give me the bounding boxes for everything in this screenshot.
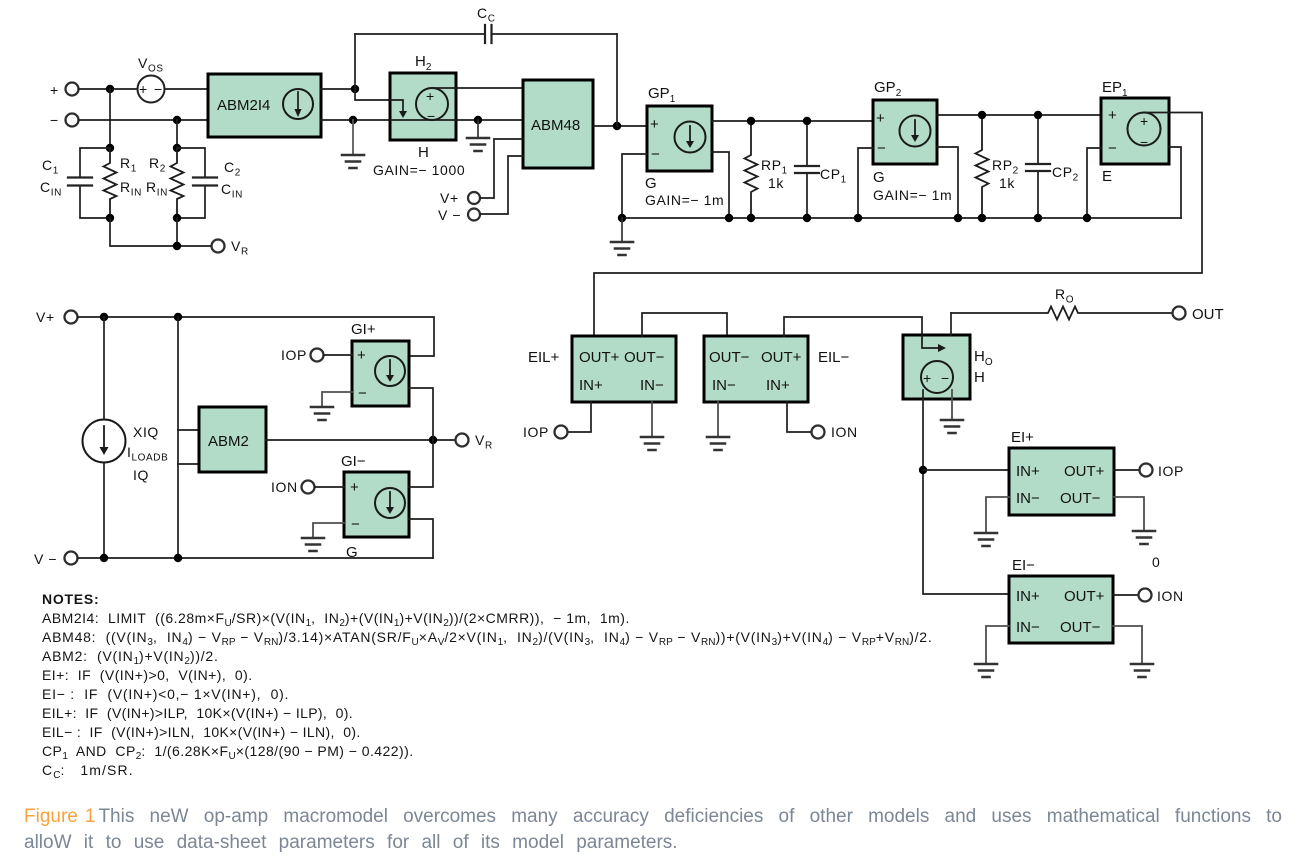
node R2 bottom xyxy=(173,214,181,222)
terminal OUT xyxy=(1173,306,1224,323)
ground EI- IN- xyxy=(975,664,997,677)
svg-text:ABM2: ABM2 xyxy=(208,433,249,450)
node CP2 top xyxy=(1034,111,1042,119)
wire EI- OUT- to ground xyxy=(1113,626,1142,664)
block ABM2I4 xyxy=(208,74,321,137)
svg-text:IQ: IQ xyxy=(133,467,149,483)
svg-text:G: G xyxy=(873,169,885,186)
terminal ION (GI-) xyxy=(271,479,315,495)
svg-text:V+: V+ xyxy=(36,309,55,325)
svg-text:V+: V+ xyxy=(440,190,459,206)
svg-text:OUT: OUT xyxy=(1192,306,1224,323)
svg-text:HO: HO xyxy=(974,348,993,368)
svg-text:−: − xyxy=(651,146,660,163)
terminal + input xyxy=(50,82,79,98)
svg-text:−: − xyxy=(1140,134,1149,150)
svg-text:OUT−: OUT− xyxy=(1060,490,1101,507)
node RP2 top xyxy=(978,111,986,119)
svg-text:C1: C1 xyxy=(42,157,59,177)
node CP1 bottom xyxy=(803,214,811,222)
wire EP1 - input to rail xyxy=(1087,148,1101,218)
svg-text:+: + xyxy=(876,110,885,127)
node CP1 top xyxy=(803,117,811,125)
svg-text:OUT−: OUT− xyxy=(624,349,665,366)
svg-text:ION: ION xyxy=(831,424,858,440)
node bottom output xyxy=(349,116,357,124)
svg-text:ABM48: ABM48 xyxy=(531,117,580,134)
svg-text:1k: 1k xyxy=(999,175,1015,191)
capacitor CP1 xyxy=(795,121,847,218)
block GP1 VCCS xyxy=(645,85,724,208)
wire EIL- OUT+ to HO sense xyxy=(784,317,922,336)
terminal IOP (EI+) xyxy=(1140,463,1184,479)
svg-text:−: − xyxy=(154,81,163,97)
svg-text:ABM2I4: ABM2I4 xyxy=(217,97,270,114)
ground below node xyxy=(342,120,364,168)
wire EI- OUT+ to ION xyxy=(1113,594,1139,596)
svg-text:GP2: GP2 xyxy=(874,79,902,99)
HO sense hook arrow xyxy=(922,335,946,352)
wire ABM2 IN1 stub xyxy=(178,429,199,431)
svg-text:+: + xyxy=(50,82,59,98)
terminal VR top xyxy=(212,238,249,258)
block GI+ VCCS xyxy=(351,321,409,406)
wire V+ rail xyxy=(78,317,435,356)
svg-text:H: H xyxy=(418,144,429,161)
wire HO + output down to EI inputs xyxy=(923,390,1009,594)
svg-text:+: + xyxy=(650,116,659,133)
wire + node down to R1 xyxy=(109,89,111,148)
wire EP1 lower output to rail end xyxy=(1169,147,1181,218)
svg-text:+: + xyxy=(426,88,435,104)
svg-text:−: − xyxy=(1108,140,1117,157)
node CC junction xyxy=(613,122,621,130)
svg-text:+: + xyxy=(357,347,366,364)
ground rail xyxy=(622,217,1181,219)
svg-text:IN+: IN+ xyxy=(766,377,790,394)
svg-text:EI+: EI+ xyxy=(1011,429,1034,446)
ground EI+ OUT- xyxy=(1133,531,1155,544)
wire to EI+ IN+ xyxy=(923,469,1009,471)
ground GI+ xyxy=(311,407,333,420)
block EI- xyxy=(1009,557,1113,643)
svg-text:IOP: IOP xyxy=(1158,463,1184,479)
node EP1 - rail xyxy=(1083,214,1091,222)
wire VR node down to GI- xyxy=(409,440,433,487)
block EIL- xyxy=(704,336,850,402)
node R2 top xyxy=(173,144,181,152)
capacitor C1 CIN xyxy=(40,148,110,218)
node XIQ top xyxy=(100,313,108,321)
svg-text:OUT+: OUT+ xyxy=(1064,588,1105,605)
svg-text:EP1: EP1 xyxy=(1102,79,1128,99)
node ABM2 branch top xyxy=(174,313,182,321)
capacitor C2 CIN xyxy=(177,148,243,218)
wire through H2 bottom xyxy=(390,119,523,121)
ground below H2 output xyxy=(467,120,489,151)
wire GP2 output bus xyxy=(937,114,1101,116)
svg-text:OUT+: OUT+ xyxy=(579,349,620,366)
svg-text:EIL−: EIL− xyxy=(818,349,850,366)
svg-text:VR: VR xyxy=(475,432,493,452)
wire ION to GI- xyxy=(315,486,345,488)
svg-text:VR: VR xyxy=(231,238,249,258)
ground below rail xyxy=(611,218,633,255)
node top output xyxy=(351,85,359,93)
wire EIL+ OUT- bridge to EIL- OUT- xyxy=(642,313,727,336)
wire V+ to ABM48 xyxy=(481,139,524,198)
current source XIQ xyxy=(83,317,169,558)
wire ABM2 input branch xyxy=(177,317,179,558)
svg-text:IN+: IN+ xyxy=(1016,588,1040,605)
wire GP1 - input to ground rail xyxy=(622,154,647,218)
wire +input to Vos xyxy=(79,88,138,90)
wire EI+ IN- to ground xyxy=(986,497,1009,533)
wire GP1 output bus xyxy=(712,120,873,122)
wire H2 + output to ABM48 xyxy=(432,87,523,89)
svg-text:CP2: CP2 xyxy=(1052,164,1079,184)
svg-text:−: − xyxy=(941,370,950,386)
svg-text:IN+: IN+ xyxy=(1016,463,1040,480)
svg-text:+: + xyxy=(1108,107,1117,124)
svg-text:+: + xyxy=(350,479,359,496)
svg-text:GAIN=− 1000: GAIN=− 1000 xyxy=(373,162,465,178)
capacitor CC xyxy=(355,5,617,43)
resistor R2 RIN xyxy=(146,148,184,218)
wire ABM2I4 bottom output xyxy=(321,119,390,121)
node VR xyxy=(429,436,437,444)
wire EIL+ IN+ to IOP xyxy=(568,402,592,432)
svg-text:RP1: RP1 xyxy=(761,157,788,177)
capacitor CP2 xyxy=(1026,115,1079,218)
block H2 CCVS xyxy=(373,53,465,178)
svg-text:0: 0 xyxy=(1152,554,1160,570)
terminal VR xyxy=(456,432,493,452)
svg-text:OUT+: OUT+ xyxy=(761,349,802,366)
node R1 bottom xyxy=(106,214,114,222)
svg-text:E: E xyxy=(1102,168,1112,185)
svg-text:IN−: IN− xyxy=(1016,619,1040,636)
terminal IOP (EIL+) xyxy=(523,424,568,440)
block EP1 VCVS xyxy=(1101,79,1169,185)
wire IOP to GI+ xyxy=(324,354,353,356)
node rail gnd xyxy=(618,214,626,222)
wire GI- - to ground xyxy=(313,523,344,538)
node EI+ branch xyxy=(919,466,927,474)
svg-text:IOP: IOP xyxy=(523,424,549,440)
block EIL+ xyxy=(528,336,676,402)
svg-text:G: G xyxy=(645,175,657,192)
ground EIL+ IN- xyxy=(641,437,663,450)
ground EIL- IN- xyxy=(707,437,729,450)
wire EI- IN- to ground xyxy=(986,626,1009,664)
svg-text:H2: H2 xyxy=(415,53,432,73)
svg-text:IN−: IN− xyxy=(1016,490,1040,507)
terminal V- supply xyxy=(34,551,78,567)
wire EIL- IN- to ground xyxy=(717,402,719,437)
wire EIL- IN+ to ION xyxy=(787,402,812,432)
node ABM2 branch bottom xyxy=(174,554,182,562)
wire ABM2I4 top output xyxy=(321,88,355,90)
wire GI+ - to ground xyxy=(322,392,352,407)
H2 sense hook arrow xyxy=(390,100,407,118)
svg-text:CIN: CIN xyxy=(40,179,62,199)
wire CC right riser xyxy=(616,34,618,126)
wire bottom to VR terminal xyxy=(110,218,212,246)
resistor RP2 1k xyxy=(976,115,1019,218)
HO source circle xyxy=(921,361,953,393)
resistor R1 RIN xyxy=(104,148,142,218)
block EI+ xyxy=(1009,429,1114,515)
svg-text:RP2: RP2 xyxy=(992,157,1019,177)
wire GP1 lower output xyxy=(712,152,729,218)
node R1 top xyxy=(106,144,114,152)
block GI- VCCS xyxy=(341,453,409,561)
svg-text:C2: C2 xyxy=(224,159,241,179)
svg-text:OUT+: OUT+ xyxy=(1064,463,1105,480)
voltage source VOS xyxy=(138,55,165,103)
svg-text:CP1: CP1 xyxy=(820,166,847,186)
block HO CCVS xyxy=(903,335,993,399)
node GP1 lower xyxy=(725,214,733,222)
svg-text:GAIN=− 1m: GAIN=− 1m xyxy=(873,187,952,203)
wire HO - to ground xyxy=(951,390,953,420)
terminal ION (EI-) xyxy=(1139,588,1184,604)
node H2 - output xyxy=(474,116,482,124)
node XIQ bottom xyxy=(100,554,108,562)
resistor RO xyxy=(951,286,1173,320)
node VR rail xyxy=(173,242,181,250)
terminal V+ xyxy=(440,190,480,206)
block GP2 VCCS xyxy=(873,79,952,203)
svg-text:1k: 1k xyxy=(768,175,784,191)
ground EI- OUT- xyxy=(1131,664,1153,677)
resistor RP1 1k xyxy=(745,121,788,218)
wire ABM2 IN2 stub xyxy=(178,463,199,465)
svg-text:ILOADB: ILOADB xyxy=(127,444,168,464)
node RP1 top xyxy=(747,117,755,125)
wire node to H2 sense input xyxy=(355,89,390,100)
terminal V+ supply xyxy=(36,309,78,325)
wire - node down to R2 xyxy=(176,120,178,148)
svg-text:ION: ION xyxy=(271,479,298,495)
svg-text:CC: CC xyxy=(477,5,496,25)
node GP2 lower xyxy=(954,214,962,222)
svg-text:+: + xyxy=(139,81,148,97)
svg-text:+: + xyxy=(923,370,932,386)
wire EIL+ IN- to ground xyxy=(651,402,653,437)
wire CC left riser xyxy=(354,34,356,89)
wire V- rail xyxy=(78,557,434,559)
svg-text:−: − xyxy=(351,516,360,533)
terminal ION (EIL-) xyxy=(812,424,858,440)
wire GP2 lower output xyxy=(937,147,958,218)
svg-text:RO: RO xyxy=(1055,286,1074,306)
svg-text:+: + xyxy=(1140,113,1149,129)
svg-text:OUT−: OUT− xyxy=(709,349,750,366)
wire ABM48 output to GP1 xyxy=(593,125,647,127)
wire EI+ OUT- to ground xyxy=(1114,497,1144,531)
node RP2 bottom xyxy=(978,214,986,222)
ground GI- xyxy=(302,538,324,551)
svg-text:−: − xyxy=(50,112,59,128)
svg-text:IN−: IN− xyxy=(640,377,664,394)
svg-text:EI−: EI− xyxy=(1012,557,1035,574)
node RP1 bottom xyxy=(747,214,755,222)
svg-text:V −: V − xyxy=(438,207,461,223)
terminal IOP (GI+) xyxy=(281,347,324,363)
wire GI+ output to VR node xyxy=(409,388,433,440)
svg-text:IOP: IOP xyxy=(281,347,307,363)
wire V- to ABM48 xyxy=(481,156,524,214)
svg-text:GAIN=− 1m: GAIN=− 1m xyxy=(645,192,724,208)
wire GP2 - input to rail xyxy=(858,148,873,218)
ground HO xyxy=(941,420,963,433)
svg-text:GI−: GI− xyxy=(341,453,366,470)
terminal V- xyxy=(438,207,480,223)
block ABM48 xyxy=(523,80,593,168)
ground EI+ IN- xyxy=(975,533,997,546)
svg-text:OUT−: OUT− xyxy=(1060,619,1101,636)
node on - line xyxy=(173,116,181,124)
svg-text:H: H xyxy=(974,369,985,386)
wire ABM2 output to VR xyxy=(266,439,456,441)
node on + line xyxy=(106,85,114,93)
svg-text:EIL+: EIL+ xyxy=(528,349,560,366)
H2 source circle xyxy=(416,88,448,124)
node CP2 bottom xyxy=(1034,214,1042,222)
svg-text:−: − xyxy=(877,140,886,157)
svg-text:V −: V − xyxy=(34,551,57,567)
svg-text:XIQ: XIQ xyxy=(133,424,159,440)
wire HO output riser to RO xyxy=(950,313,952,335)
svg-text:GP1: GP1 xyxy=(648,85,676,105)
svg-text:RIN: RIN xyxy=(146,179,168,199)
wire EI+ OUT+ to IOP xyxy=(1114,469,1140,471)
node GP2 - rail xyxy=(854,214,862,222)
wire -input to ABM2I4 xyxy=(79,119,209,121)
svg-text:GI+: GI+ xyxy=(351,321,376,338)
svg-text:RIN: RIN xyxy=(120,179,142,199)
block ABM2 xyxy=(199,407,266,472)
svg-text:R2: R2 xyxy=(149,155,166,175)
svg-text:VOS: VOS xyxy=(138,55,164,75)
terminal - input xyxy=(50,112,79,128)
svg-text:−: − xyxy=(427,108,436,124)
svg-text:IN−: IN− xyxy=(712,377,736,394)
wire GI- output down to V- rail xyxy=(409,519,433,558)
svg-text:R1: R1 xyxy=(120,155,137,175)
svg-text:CIN: CIN xyxy=(221,181,243,201)
svg-text:IN+: IN+ xyxy=(579,377,603,394)
wire Vos to ABM2I4 xyxy=(165,88,209,90)
svg-text:−: − xyxy=(358,385,367,402)
wire EP1 output down to EIL stage xyxy=(594,113,1202,337)
svg-text:ION: ION xyxy=(1157,588,1184,604)
